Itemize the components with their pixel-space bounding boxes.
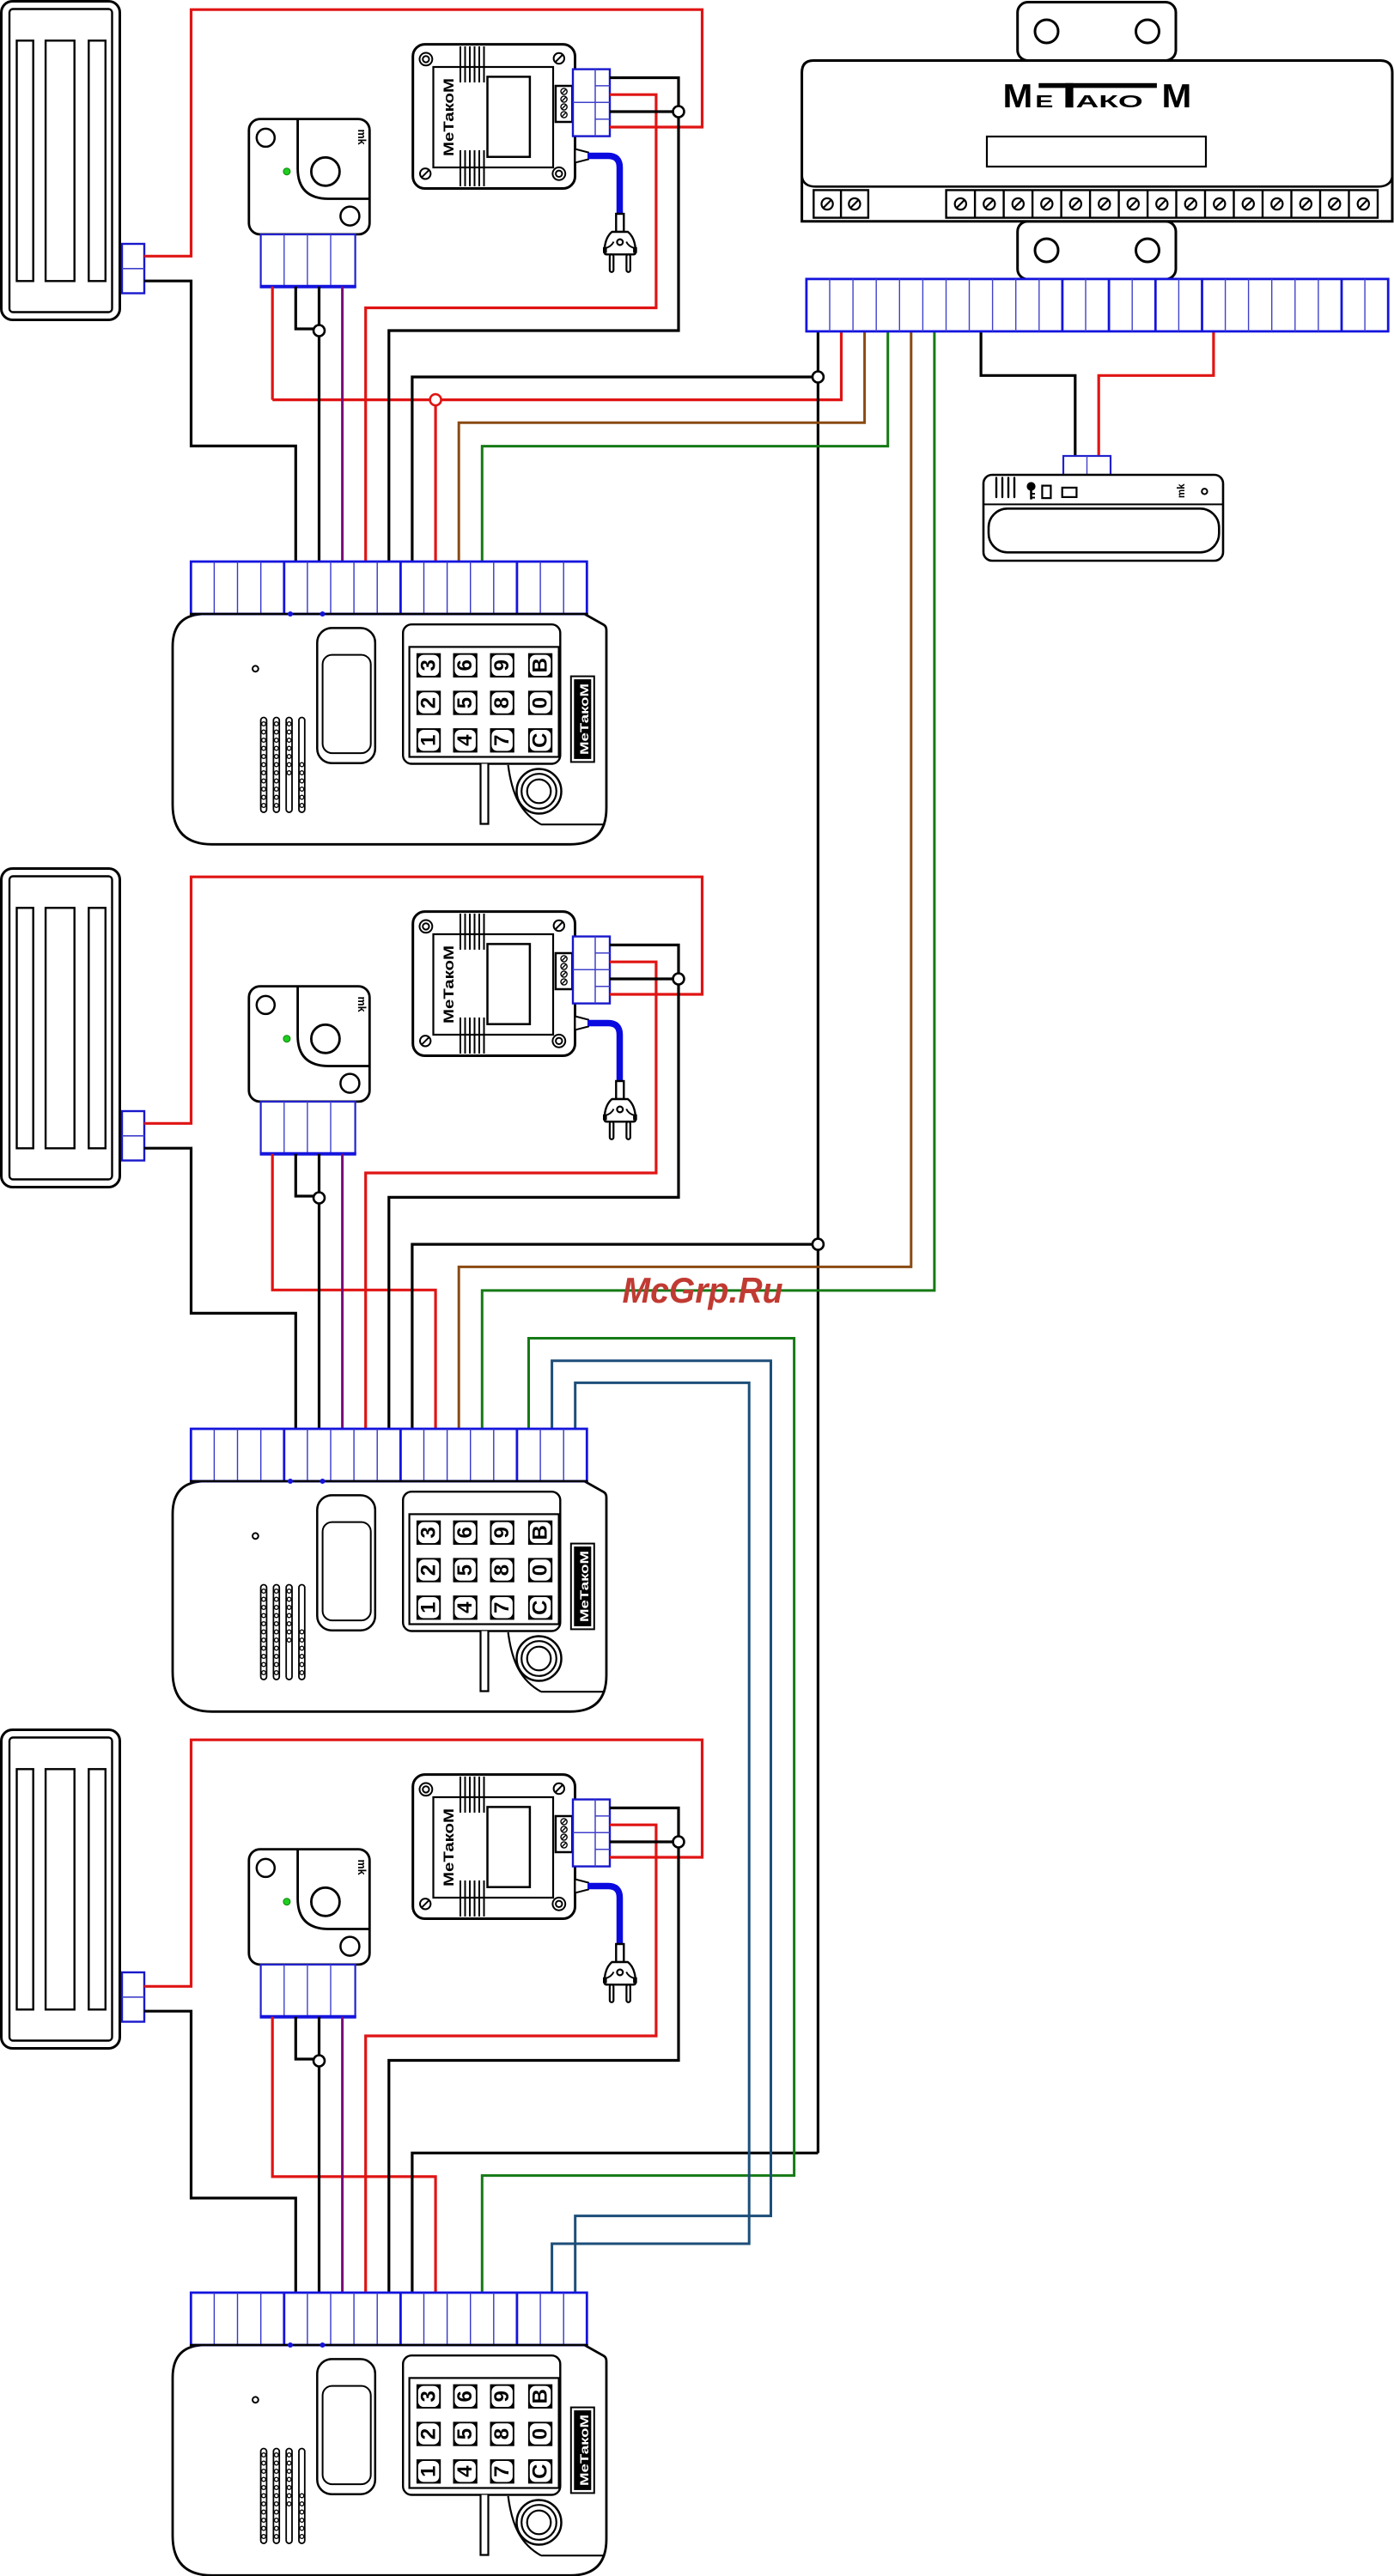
svg-text:С: С [529,1601,552,1615]
svg-text:В: В [529,2389,552,2403]
svg-text:3: 3 [417,659,441,671]
svg-text:2: 2 [417,1564,441,1576]
svg-text:7: 7 [490,1602,514,1613]
svg-text:9: 9 [490,659,514,671]
svg-text:8: 8 [490,1564,514,1576]
svg-text:В: В [529,1525,552,1540]
svg-text:6: 6 [454,2391,477,2402]
svg-text:С: С [529,733,552,748]
svg-text:0: 0 [529,697,552,708]
svg-text:8: 8 [490,2428,514,2439]
svg-text:5: 5 [454,697,477,708]
svg-text:McGrp.Ru: McGrp.Ru [623,1270,783,1310]
svg-text:В: В [529,658,552,672]
svg-text:С: С [529,2464,552,2479]
svg-text:6: 6 [454,1527,477,1538]
svg-text:6: 6 [454,659,477,671]
svg-text:mk: mk [1177,483,1187,498]
svg-text:4: 4 [454,1601,477,1613]
svg-text:АКО: АКО [1076,93,1143,112]
svg-text:2: 2 [417,697,441,708]
svg-text:1: 1 [417,1602,441,1613]
svg-text:4: 4 [454,2465,477,2477]
svg-text:3: 3 [417,1527,441,1538]
svg-text:0: 0 [529,1564,552,1576]
svg-text:5: 5 [454,2428,477,2439]
svg-text:4: 4 [454,734,477,746]
svg-text:8: 8 [490,697,514,708]
svg-text:Е: Е [1035,93,1053,112]
svg-text:5: 5 [454,1564,477,1576]
svg-text:2: 2 [417,2428,441,2439]
svg-text:М: М [1162,78,1192,115]
svg-text:9: 9 [490,2391,514,2402]
svg-text:7: 7 [490,2466,514,2477]
svg-text:М: М [1003,78,1033,115]
svg-text:0: 0 [529,2428,552,2439]
svg-text:7: 7 [490,735,514,746]
svg-text:9: 9 [490,1527,514,1538]
svg-text:1: 1 [417,735,441,746]
svg-text:3: 3 [417,2391,441,2402]
svg-text:1: 1 [417,2466,441,2477]
